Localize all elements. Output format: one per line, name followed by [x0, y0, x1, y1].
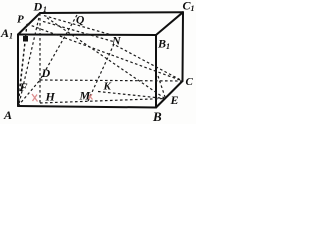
svg-text:M: M	[79, 89, 91, 103]
svg-text:Q: Q	[76, 15, 84, 27]
svg-text:H: H	[45, 90, 56, 104]
svg-text:A: A	[3, 108, 12, 122]
segment N M	[88, 44, 114, 101]
edge C1 C (back right vertical)	[182, 12, 185, 81]
segment D H (vertical)	[39, 80, 41, 103]
hidden edge D1 D	[39, 13, 41, 80]
edge A B (front bottom)	[18, 106, 156, 108]
svg-text:N: N	[111, 34, 122, 48]
svg-text:P: P	[17, 14, 24, 26]
edge D1 C1 (back top)	[40, 11, 183, 14]
red mark at H	[32, 94, 38, 102]
edge A1 A (front left)	[17, 35, 19, 107]
segment D1 E	[47, 18, 165, 99]
segment H E (through M)	[40, 99, 165, 104]
black square mark below A1B1	[23, 36, 28, 42]
svg-text:E: E	[170, 93, 179, 107]
segment P C	[27, 24, 183, 81]
segment Q D	[40, 15, 77, 80]
svg-text:C: C	[186, 76, 194, 88]
segment near B1 E	[158, 76, 165, 97]
vertex labels	[0, 0, 195, 124]
edge A1 B1 (front top)	[18, 34, 156, 37]
segment D1 to edge A1B1	[44, 16, 110, 35]
segment parallel under Q to N	[43, 21, 115, 42]
svg-text:K: K	[103, 81, 112, 93]
segment N C	[116, 46, 183, 82]
hidden edge A D	[18, 80, 40, 106]
red mark at M	[88, 94, 93, 99]
edge B1 C1 (top right depth)	[156, 12, 183, 35]
svg-text:B: B	[152, 109, 162, 124]
edge B C (bottom right depth, E on it)	[156, 81, 183, 108]
segment P A	[19, 24, 28, 103]
svg-text:F: F	[19, 80, 28, 94]
segment D1 A	[19, 13, 40, 104]
edge B1 B (front right)	[155, 35, 157, 108]
hidden edge D C	[40, 80, 183, 81]
edge A1 D1 (top left depth)	[18, 13, 40, 35]
svg-text:D: D	[41, 66, 51, 80]
segment K E	[98, 92, 165, 99]
segment P F	[20, 24, 28, 89]
